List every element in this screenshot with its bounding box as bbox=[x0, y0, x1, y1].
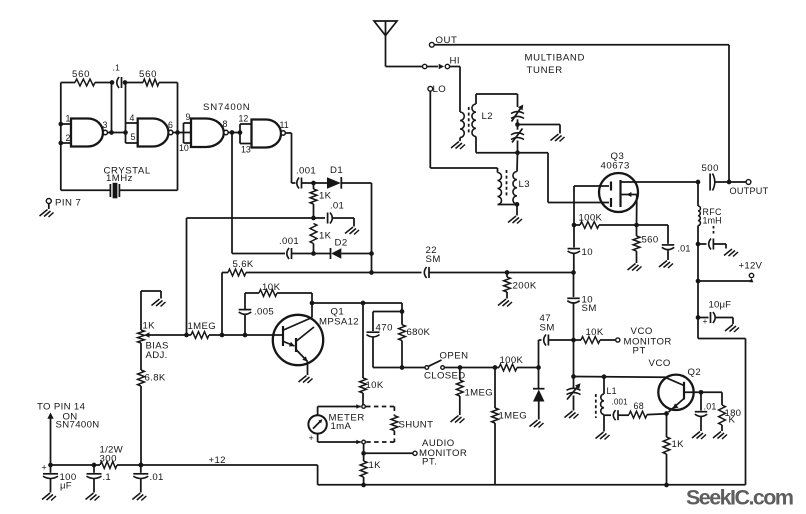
svg-text:+12: +12 bbox=[209, 455, 226, 466]
svg-text:L3: L3 bbox=[519, 179, 531, 190]
svg-text:OUT: OUT bbox=[436, 35, 458, 46]
svg-text:TO PIN 14: TO PIN 14 bbox=[37, 402, 86, 413]
svg-text:.01: .01 bbox=[704, 402, 717, 412]
svg-text:VCO: VCO bbox=[649, 358, 671, 369]
svg-text:SHUNT: SHUNT bbox=[399, 420, 434, 431]
svg-text:OPEN: OPEN bbox=[440, 351, 469, 362]
svg-text:.1: .1 bbox=[113, 63, 121, 73]
svg-text:TUNER: TUNER bbox=[527, 65, 563, 76]
svg-text:CLOSED: CLOSED bbox=[424, 371, 466, 382]
svg-text:13: 13 bbox=[241, 145, 251, 155]
svg-text:560: 560 bbox=[642, 235, 659, 246]
svg-text:10K: 10K bbox=[586, 327, 604, 338]
svg-text:.001: .001 bbox=[612, 398, 629, 407]
svg-text:MPSA12: MPSA12 bbox=[319, 317, 359, 328]
svg-text:40673: 40673 bbox=[601, 161, 630, 172]
svg-text:SN7400N: SN7400N bbox=[56, 420, 100, 431]
svg-text:1MHz: 1MHz bbox=[106, 173, 133, 184]
svg-text:10K: 10K bbox=[262, 282, 281, 293]
svg-text:5.6K: 5.6K bbox=[233, 259, 254, 270]
svg-text:10μF: 10μF bbox=[709, 300, 732, 311]
svg-text:560: 560 bbox=[72, 69, 90, 80]
svg-text:VCO: VCO bbox=[631, 326, 653, 337]
svg-text:1K: 1K bbox=[143, 321, 156, 332]
svg-text:10: 10 bbox=[179, 143, 189, 153]
svg-text:SM: SM bbox=[540, 323, 555, 334]
svg-text:2: 2 bbox=[66, 133, 71, 143]
svg-text:+: + bbox=[703, 316, 708, 326]
svg-text:6: 6 bbox=[168, 120, 173, 130]
svg-text:470: 470 bbox=[376, 323, 393, 334]
svg-text:D1: D1 bbox=[330, 165, 343, 176]
svg-text:1: 1 bbox=[66, 114, 71, 124]
svg-text:.01: .01 bbox=[678, 244, 691, 254]
svg-text:ADJ.: ADJ. bbox=[146, 350, 168, 361]
svg-text:300: 300 bbox=[100, 454, 117, 465]
svg-text:68: 68 bbox=[634, 401, 645, 411]
svg-text:1K: 1K bbox=[319, 231, 332, 242]
svg-text:.01: .01 bbox=[330, 201, 344, 212]
svg-text:1MEG: 1MEG bbox=[465, 388, 494, 399]
svg-text:LO: LO bbox=[433, 84, 447, 95]
svg-text:10K: 10K bbox=[366, 380, 384, 391]
svg-text:560: 560 bbox=[139, 69, 157, 80]
svg-text:.001: .001 bbox=[279, 236, 299, 247]
svg-text:1mA: 1mA bbox=[331, 421, 352, 432]
svg-text:1MEG: 1MEG bbox=[499, 411, 528, 422]
svg-text:100K: 100K bbox=[500, 355, 524, 366]
svg-text:.01: .01 bbox=[150, 472, 164, 483]
svg-text:10: 10 bbox=[582, 247, 594, 258]
svg-text:500: 500 bbox=[702, 163, 719, 174]
svg-text:SN7400N: SN7400N bbox=[203, 102, 251, 113]
svg-text:K: K bbox=[729, 415, 736, 426]
svg-text:1K: 1K bbox=[369, 460, 382, 471]
svg-text:L1: L1 bbox=[607, 386, 617, 396]
svg-text:PT.: PT. bbox=[422, 457, 437, 468]
svg-text:OUTPUT: OUTPUT bbox=[730, 186, 769, 196]
svg-text:11: 11 bbox=[280, 120, 289, 130]
svg-text:L2: L2 bbox=[482, 111, 494, 122]
svg-text:8: 8 bbox=[223, 119, 228, 129]
svg-text:3: 3 bbox=[103, 120, 108, 130]
svg-text:D2: D2 bbox=[335, 238, 348, 249]
svg-text:200K: 200K bbox=[513, 281, 537, 292]
svg-text:HI: HI bbox=[450, 56, 461, 67]
svg-text:.005: .005 bbox=[254, 307, 274, 318]
svg-text:.1: .1 bbox=[103, 472, 112, 483]
svg-text:9: 9 bbox=[186, 112, 191, 122]
svg-text:MULTIBAND: MULTIBAND bbox=[525, 53, 586, 64]
svg-text:5: 5 bbox=[131, 132, 136, 142]
svg-text:6.8K: 6.8K bbox=[145, 373, 166, 384]
svg-text:SeekIC.com: SeekIC.com bbox=[686, 486, 794, 510]
svg-text:μF: μF bbox=[60, 481, 72, 492]
svg-text:680K: 680K bbox=[407, 327, 431, 338]
svg-text:1MEG: 1MEG bbox=[188, 321, 217, 332]
svg-text:12: 12 bbox=[239, 114, 249, 124]
svg-text:SM: SM bbox=[582, 303, 597, 314]
svg-text:+: + bbox=[42, 463, 47, 473]
svg-text:SM: SM bbox=[426, 254, 441, 265]
svg-text:1K: 1K bbox=[672, 439, 685, 450]
svg-text:PIN 7: PIN 7 bbox=[55, 198, 81, 209]
svg-text:1mH: 1mH bbox=[703, 216, 722, 226]
svg-text:MONITOR: MONITOR bbox=[624, 337, 672, 348]
svg-text:4: 4 bbox=[130, 113, 135, 123]
svg-text:PT: PT bbox=[633, 346, 646, 357]
svg-text:+12V: +12V bbox=[739, 261, 763, 272]
svg-text:100K: 100K bbox=[579, 213, 603, 224]
svg-text:Q2: Q2 bbox=[688, 367, 702, 378]
svg-text:.001: .001 bbox=[296, 166, 316, 177]
svg-text:+: + bbox=[309, 433, 314, 443]
